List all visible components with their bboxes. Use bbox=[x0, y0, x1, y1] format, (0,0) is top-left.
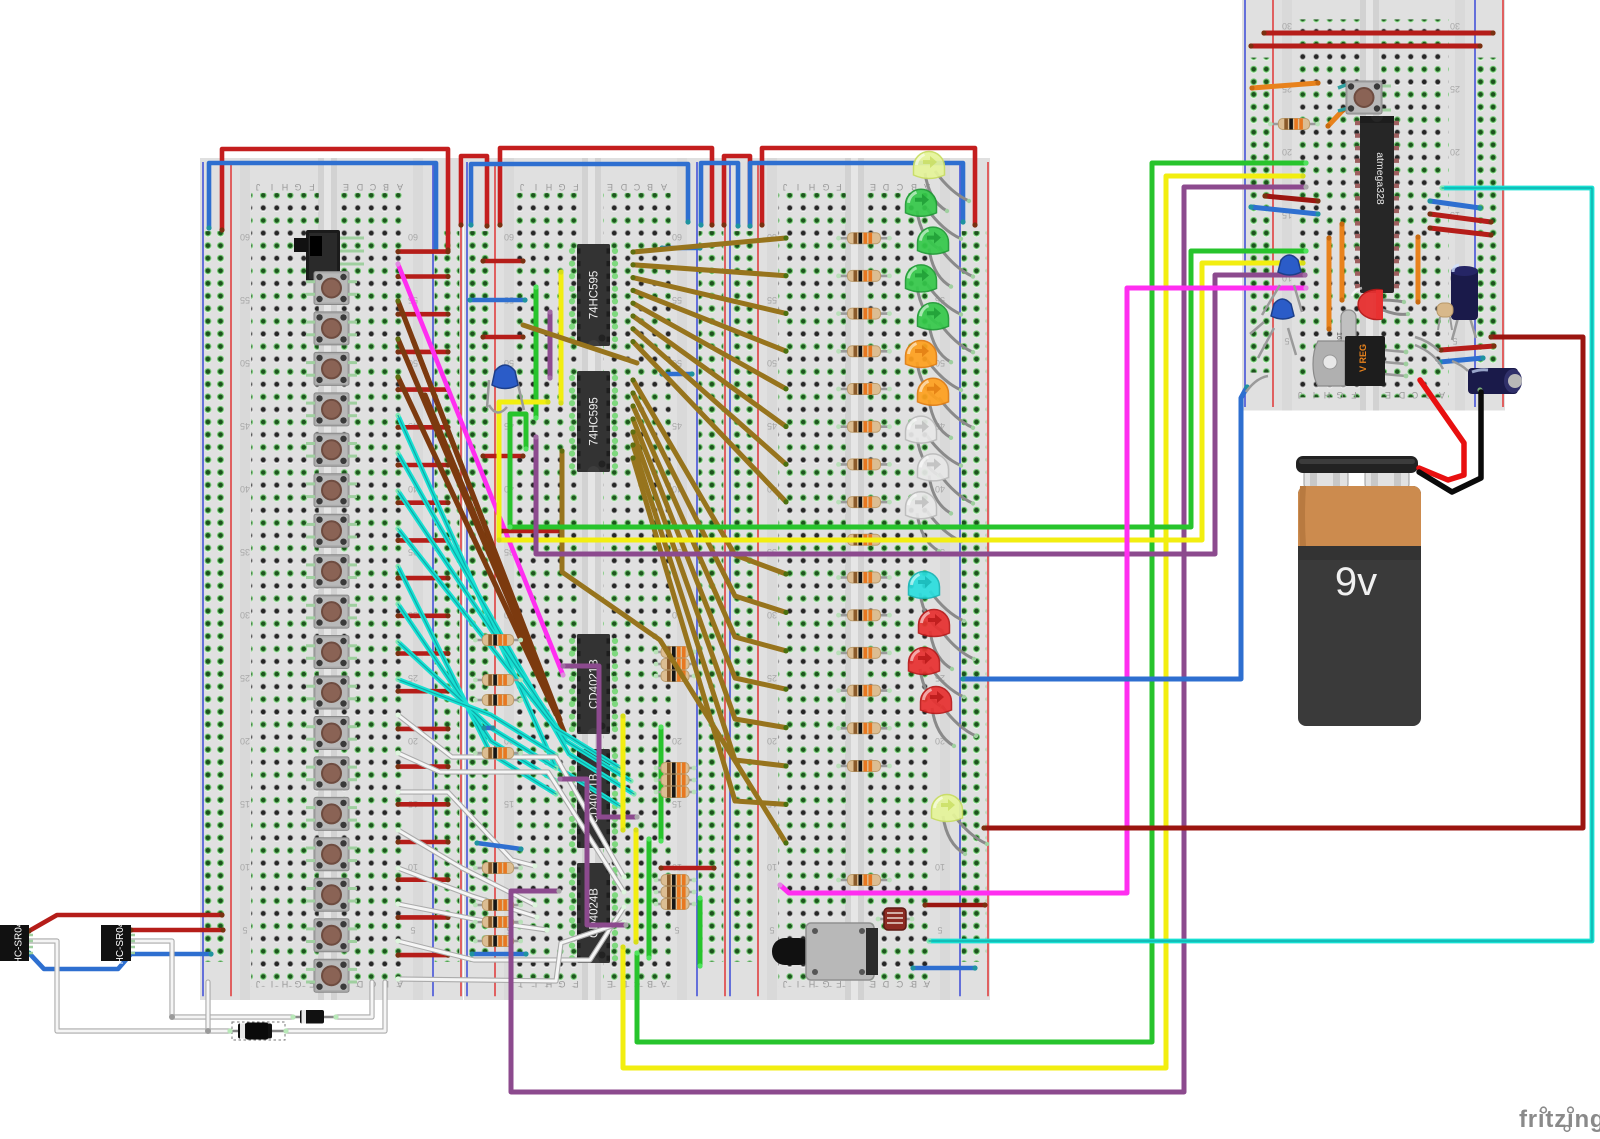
resistor R-in6 (BB2 left) bbox=[473, 900, 523, 911]
capacitor ceramic C2 (blue) on BB2 bbox=[487, 365, 524, 413]
wire white button w8 to CD4021 bbox=[398, 922, 624, 981]
resistor R-b3 (BB2 right) bbox=[654, 787, 697, 798]
wire olive fan1-3 595 to BB3 bbox=[630, 275, 788, 316]
wire red jumper BB1 row62 bbox=[395, 249, 450, 254]
svg-text:9v: 9v bbox=[1335, 560, 1377, 604]
svg-text:G: G bbox=[558, 182, 565, 192]
resistor R-led11 (BB3) bbox=[836, 610, 892, 621]
svg-text:E: E bbox=[343, 182, 349, 192]
breadboard BB4 (ATmega board) bbox=[1242, 0, 1505, 411]
svg-text:F: F bbox=[1351, 390, 1357, 400]
battery 9V bbox=[1296, 456, 1421, 726]
svg-text:fritzing: fritzing bbox=[1519, 1106, 1600, 1133]
wire green BB2 v3 bbox=[646, 836, 651, 960]
wire yellow BB2 v2 bbox=[620, 713, 625, 832]
resistor R-in4 (BB2 left) bbox=[473, 748, 523, 759]
resistor R-c3 (BB2 right) bbox=[654, 899, 697, 910]
svg-text:74HC595: 74HC595 bbox=[589, 397, 601, 446]
wire blue BB3 bottom bbox=[910, 965, 977, 970]
svg-text:15: 15 bbox=[240, 799, 250, 809]
wire red BB2 left r46 bbox=[480, 453, 525, 458]
svg-text:J: J bbox=[256, 979, 261, 989]
pushbutton SW16 bbox=[306, 878, 357, 911]
LED D2 green (BB3) bbox=[906, 189, 964, 251]
resistor R-led1 (BB3) bbox=[836, 233, 892, 244]
svg-text:25: 25 bbox=[1450, 84, 1460, 94]
pushbutton SW6 bbox=[306, 474, 357, 507]
wire olive fan1-1 595 to BB3 bbox=[630, 235, 788, 254]
svg-text:20: 20 bbox=[767, 736, 777, 746]
wire red jumper BB1 r16 bbox=[395, 877, 450, 882]
wire red jumper BB1 r3 bbox=[395, 387, 450, 392]
svg-text:C: C bbox=[896, 182, 903, 192]
pushbutton SW2 bbox=[306, 312, 357, 345]
wire cyan button c1 to CD4021 bbox=[395, 413, 622, 809]
svg-text:C: C bbox=[633, 182, 640, 192]
svg-text:D: D bbox=[356, 182, 363, 192]
svg-text:F: F bbox=[309, 182, 315, 192]
svg-text:atmega328: atmega328 bbox=[1374, 152, 1386, 205]
svg-text:J: J bbox=[783, 182, 788, 192]
LED D9 white (BB3) bbox=[917, 454, 975, 516]
svg-text:40: 40 bbox=[240, 484, 250, 494]
pushbutton SW5 bbox=[306, 433, 357, 466]
wire white button w6 to CD4021 bbox=[398, 904, 547, 930]
wire purple CD4021b bbox=[557, 776, 628, 927]
wire blue bus BB1R-to-BB2R bbox=[468, 164, 690, 228]
wire cyan button c2 to CD4021 bbox=[395, 451, 636, 797]
wire yellow long loop1 bbox=[620, 173, 1305, 1068]
svg-text:E: E bbox=[870, 182, 876, 192]
IC U3 CD4021B (BB2) bbox=[569, 634, 618, 734]
LED D12 red (BB3) bbox=[919, 609, 977, 671]
slide switch S1 bbox=[294, 230, 364, 282]
wire red BB2 left r55 bbox=[480, 334, 525, 339]
resistor R-led4 (BB3) bbox=[836, 346, 892, 357]
svg-text:H: H bbox=[1324, 390, 1331, 400]
wire gray leads BB4 bbox=[1246, 322, 1468, 392]
svg-text:F: F bbox=[573, 979, 579, 989]
svg-text:I: I bbox=[797, 979, 800, 989]
wire blue BB2 left bbox=[467, 297, 527, 302]
resistor R-c1 (BB2 right) bbox=[654, 875, 697, 886]
wire olive fan1-2 595 to BB3 bbox=[630, 262, 788, 278]
svg-text:45: 45 bbox=[240, 421, 250, 431]
capacitor tan C6 (BB4) bbox=[1437, 303, 1453, 330]
IC U4 CD4021B (BB2) bbox=[569, 749, 618, 848]
breadboard BB1 (buttons board) bbox=[200, 158, 463, 1000]
svg-text:10: 10 bbox=[240, 862, 250, 872]
resistor R-led8 (BB3) bbox=[836, 497, 892, 508]
svg-text:E: E bbox=[1385, 390, 1391, 400]
wire purple long loop1 bbox=[511, 184, 1309, 1092]
wire olive fan2-5 595 to BB3 bbox=[630, 429, 788, 730]
svg-text:H: H bbox=[809, 182, 816, 192]
LED D5 green (BB3) bbox=[917, 303, 975, 365]
svg-text:J: J bbox=[256, 182, 261, 192]
resistor R-c2 (BB2 right) bbox=[654, 887, 697, 898]
resistor R-led14 (BB3) bbox=[836, 723, 892, 734]
wire magenta long (BB3 bottom to ATmega) bbox=[777, 285, 1308, 893]
svg-text:30: 30 bbox=[240, 610, 250, 620]
wire olive fan2-4 595 to BB3 bbox=[630, 416, 788, 691]
svg-text:45: 45 bbox=[767, 421, 777, 431]
svg-text:H: H bbox=[282, 979, 289, 989]
crystal Y1 16MHz bbox=[1335, 310, 1356, 355]
breadboard BB3 (LED board) bbox=[727, 158, 990, 1000]
wire yellow BB2 elbow bbox=[496, 399, 550, 542]
resistor R-a1 (BB2 right) bbox=[654, 647, 697, 658]
wire olive fan1-8 595 to BB3 bbox=[630, 339, 788, 505]
wire white button w5 to CD4021 bbox=[398, 868, 537, 917]
wire red BB2 left r61 bbox=[480, 258, 525, 263]
resistor R-led6 (BB3) bbox=[836, 421, 892, 432]
resistor R17 (BB4) bbox=[1268, 119, 1320, 130]
svg-text:A: A bbox=[397, 182, 403, 192]
wire red jumper BB1 r2 bbox=[395, 349, 450, 354]
wire red BB2 mid r40 bbox=[498, 528, 563, 533]
pushbutton SW1 bbox=[306, 272, 357, 305]
resistor R-led10 (BB3) bbox=[836, 572, 892, 583]
svg-text:A: A bbox=[661, 979, 667, 989]
svg-text:60: 60 bbox=[672, 232, 682, 242]
wire cyan button c4 to CD4021 bbox=[395, 526, 622, 771]
voltage regulator VREG 7805 bbox=[1313, 336, 1408, 386]
LED D16 red (BB4) bbox=[1352, 288, 1410, 320]
capacitor ceramic C3 (blue, BB4) bbox=[1262, 255, 1302, 315]
LED D1 yellow-green (BB3) bbox=[914, 151, 972, 213]
wire red bus BB2L-to-BB2R bbox=[497, 148, 714, 228]
svg-text:B: B bbox=[647, 182, 653, 192]
svg-text:20: 20 bbox=[672, 736, 682, 746]
svg-text:I: I bbox=[535, 182, 538, 192]
pushbutton SW14 bbox=[306, 797, 357, 830]
wire white diode1 to BB1 bbox=[336, 982, 372, 1017]
svg-text:20: 20 bbox=[1282, 147, 1292, 157]
wire red module2 to BB1 rail bbox=[128, 927, 225, 932]
wire blue BB2 left bottom bbox=[469, 951, 528, 956]
wire red jumper BB1 r11 bbox=[395, 689, 450, 694]
wire brown button b1 to CD4021 bbox=[395, 298, 550, 692]
svg-text:15: 15 bbox=[672, 799, 682, 809]
wire white diode2 to BB1 bbox=[286, 982, 385, 1031]
wire purple CD4021a bbox=[560, 663, 639, 819]
capacitor ceramic C4 (blue, BB4) bbox=[1258, 299, 1296, 358]
svg-text:55: 55 bbox=[672, 295, 682, 305]
svg-text:C: C bbox=[896, 979, 903, 989]
LED D11 cyan (BB3) bbox=[909, 572, 967, 634]
resistor R-led12 (BB3) bbox=[836, 647, 892, 658]
svg-text:30: 30 bbox=[1450, 21, 1460, 31]
pushbutton SW4 bbox=[306, 393, 357, 426]
capacitor electrolytic C5 (BB4) bbox=[1451, 265, 1478, 340]
wire dark-red long (ATmega to BB3) bbox=[981, 334, 1583, 830]
svg-text:G: G bbox=[294, 979, 301, 989]
wire blue BB4 right4 bbox=[1437, 355, 1485, 364]
svg-text:D: D bbox=[882, 979, 889, 989]
resistor R-in1 (BB2 left) bbox=[473, 635, 523, 646]
wire blue BB2 left diag bbox=[474, 840, 523, 851]
svg-text:30: 30 bbox=[1282, 21, 1292, 31]
wire olive fan2-3 595 to BB3 bbox=[630, 403, 788, 653]
wire red bus BB1R-to-BB2L bbox=[458, 156, 489, 229]
svg-text:20: 20 bbox=[1450, 147, 1460, 157]
IC U1 74HC595 (BB2) bbox=[569, 244, 618, 346]
wire white button w3 to CD4021 bbox=[398, 792, 535, 866]
wire cyan button c6 to CD4021 bbox=[395, 601, 558, 783]
wire white module1 loop bbox=[29, 941, 230, 1031]
wire orange BB4 v2 bbox=[1339, 221, 1344, 302]
wire olive fan2-6 595 to BB3 bbox=[630, 442, 788, 768]
wire brown button b3 to CD4021 bbox=[395, 374, 558, 716]
wire olive fan2-1 595 to BB3 bbox=[630, 377, 788, 576]
pushbutton SW11 bbox=[306, 676, 357, 709]
svg-text:60: 60 bbox=[504, 232, 514, 242]
wire yellow long mid bbox=[496, 260, 1305, 542]
resistor R-led9 (BB3) bbox=[836, 534, 892, 545]
wire blue BB4 left bbox=[1248, 204, 1320, 216]
wire red bus BB1L-to-BB1R bbox=[219, 149, 450, 253]
wire cyan long (ATmega to BB3 bottom) bbox=[926, 185, 1592, 943]
pushbutton SW7 bbox=[306, 514, 357, 547]
svg-text:C: C bbox=[1411, 390, 1418, 400]
svg-text:B: B bbox=[647, 979, 653, 989]
wire red jumper BB1 r12 bbox=[395, 726, 450, 731]
resistor R-in3 (BB2 left) bbox=[473, 695, 523, 706]
LED D6 orange (BB3) bbox=[906, 341, 964, 403]
wire red bus BB3L-to-BB3R bbox=[759, 148, 977, 228]
wire red jumper BB1 r14 bbox=[395, 802, 450, 807]
resistor R-led5 (BB3) bbox=[836, 384, 892, 395]
wire orange BB4 v3 bbox=[1415, 234, 1420, 304]
wire red jumper BB1 r1 bbox=[395, 312, 450, 317]
svg-text:74HC595: 74HC595 bbox=[589, 271, 601, 320]
wire red jumper BB1 r0 bbox=[395, 274, 450, 279]
pushbutton SW19 (reset, BB4) bbox=[1338, 81, 1391, 114]
wire red jumper BB1 r5 bbox=[395, 462, 450, 467]
pushbutton SW13 bbox=[306, 757, 357, 790]
wire blue bus BB2R-to-BB3L bbox=[698, 163, 740, 229]
svg-text:10: 10 bbox=[767, 862, 777, 872]
svg-text:I: I bbox=[271, 979, 274, 989]
wire red jumper BB1 r8 bbox=[395, 576, 450, 581]
svg-text:15: 15 bbox=[504, 799, 514, 809]
LED D8 white (BB3) bbox=[906, 416, 964, 478]
wire red BB4 right1 bbox=[1427, 211, 1493, 224]
wire white BB1 rail drop bbox=[205, 982, 210, 1031]
wire red jumper BB1 r17 bbox=[395, 915, 450, 920]
resistor R-in5 (BB2 left) bbox=[473, 863, 523, 874]
wire red battery lead bbox=[1419, 380, 1464, 480]
svg-text:HC-SR04: HC-SR04 bbox=[115, 921, 126, 964]
svg-text:C: C bbox=[369, 182, 376, 192]
wire green BB2 v1 bbox=[533, 284, 538, 420]
wire red jumper BB1 r7 bbox=[395, 538, 450, 543]
wire red jumper BB1 r9 bbox=[395, 613, 450, 618]
wire green BB2 stub bbox=[697, 895, 702, 968]
svg-text:55: 55 bbox=[240, 295, 250, 305]
wire brown button b2 to CD4021 bbox=[395, 336, 554, 704]
resistor R-b1 (BB2 right) bbox=[654, 763, 697, 774]
svg-text:G: G bbox=[294, 182, 301, 192]
svg-text:D: D bbox=[356, 979, 363, 989]
wire olive fan2-2 595 to BB3 bbox=[630, 390, 788, 615]
svg-text:B: B bbox=[383, 182, 389, 192]
svg-text:J: J bbox=[783, 979, 788, 989]
wire yellow BB2 v3 bbox=[633, 827, 638, 944]
wire olive fan2-7 595 to BB3 bbox=[630, 455, 788, 807]
pushbutton SW8 bbox=[306, 555, 357, 588]
wire white module2 loop bbox=[131, 941, 293, 1017]
wire cyan button c3 to CD4021 bbox=[395, 488, 633, 783]
svg-text:5: 5 bbox=[242, 925, 247, 935]
IC U2 74HC595 (BB2) bbox=[569, 371, 618, 472]
resistor R-in7 (BB2 left) bbox=[473, 917, 523, 928]
breadboard BB2 (shift-register board) bbox=[464, 158, 727, 1000]
svg-text:5: 5 bbox=[769, 925, 774, 935]
wire red jumper BB1 r10 bbox=[395, 651, 450, 656]
wire orange BB4 left bbox=[1249, 80, 1320, 90]
svg-text:HC-SR04: HC-SR04 bbox=[14, 921, 25, 964]
wire red BB4 right2 bbox=[1427, 225, 1493, 237]
pushbutton SW17 bbox=[306, 919, 357, 952]
wire magenta button-row to BB2 bbox=[395, 261, 565, 677]
svg-text:25: 25 bbox=[767, 673, 777, 683]
wire olive fan1-5 595 to BB3 bbox=[630, 301, 788, 392]
svg-text:B: B bbox=[911, 979, 917, 989]
wire yellow BB2 v1 bbox=[558, 269, 563, 405]
wire blue long (ATmega to BB3) bbox=[960, 384, 1249, 681]
svg-text:20: 20 bbox=[240, 736, 250, 746]
wire white button w1 to CD4021 bbox=[398, 715, 624, 877]
diode D2 (selected) bbox=[227, 1022, 288, 1040]
wire olive fan2-8 bbox=[559, 448, 788, 845]
wire blue BB2 stub bbox=[481, 725, 495, 730]
resistor R-in2 (BB2 left) bbox=[473, 675, 523, 686]
resistor R-led13 (BB3) bbox=[836, 685, 892, 696]
wire orange BB4 v1 bbox=[1326, 235, 1331, 331]
pushbutton SW9 bbox=[306, 595, 357, 628]
svg-text:50: 50 bbox=[240, 358, 250, 368]
svg-text:55: 55 bbox=[767, 295, 777, 305]
svg-text:G: G bbox=[1336, 390, 1343, 400]
svg-text:35: 35 bbox=[240, 547, 250, 557]
pushbutton SW10 bbox=[306, 636, 357, 669]
wire brown button b4 to CD4021 bbox=[413, 340, 560, 720]
wire black battery lead bbox=[1419, 392, 1481, 492]
resistor R-b2 (BB2 right) bbox=[654, 775, 697, 786]
svg-text:D: D bbox=[1398, 390, 1405, 400]
capacitor electrolytic C7 (BB4, horizontal) bbox=[1468, 368, 1522, 400]
svg-text:H: H bbox=[546, 182, 553, 192]
wire blue BB2 right r52 bbox=[659, 371, 694, 376]
svg-text:I: I bbox=[271, 182, 274, 192]
svg-text:J: J bbox=[520, 182, 525, 192]
svg-text:F: F bbox=[836, 182, 842, 192]
svg-text:60: 60 bbox=[408, 232, 418, 242]
photoresistor LDR1 bbox=[876, 908, 915, 930]
wire olive fan1-7 595 to BB3 bbox=[630, 326, 788, 467]
wire red module1 to BB1 rail bbox=[26, 912, 224, 933]
diode D1 bbox=[290, 1010, 338, 1024]
svg-text:J: J bbox=[1298, 390, 1303, 400]
wire brown button b5 to CD4021 bbox=[425, 395, 564, 732]
IC U6 ATmega328 DIP-28 bbox=[1355, 116, 1399, 293]
svg-text:5: 5 bbox=[937, 925, 942, 935]
svg-text:I: I bbox=[797, 182, 800, 192]
svg-text:E: E bbox=[607, 979, 613, 989]
svg-text:A: A bbox=[1439, 390, 1445, 400]
svg-text:E: E bbox=[607, 182, 613, 192]
LED D3 green (BB3) bbox=[917, 227, 975, 289]
wire red jumper BB1 r4 bbox=[395, 425, 450, 430]
svg-text:60: 60 bbox=[240, 232, 250, 242]
svg-text:45: 45 bbox=[672, 421, 682, 431]
svg-text:5: 5 bbox=[674, 925, 679, 935]
wire cyan button c5 to CD4021 bbox=[395, 564, 558, 797]
resistor R-in8 (BB2 left) bbox=[473, 936, 523, 947]
LED D14 red (BB3) bbox=[921, 687, 979, 749]
wire dark-red BB4 left bbox=[1262, 193, 1320, 203]
svg-text:20: 20 bbox=[408, 736, 418, 746]
svg-text:I: I bbox=[1313, 390, 1316, 400]
pushbutton SW12 bbox=[306, 717, 357, 750]
wire green long loop1 (BB2 bottom to ATmega) bbox=[634, 160, 1308, 1042]
wire purple BB2 v1 bbox=[547, 309, 552, 380]
sonar module HC-SR04 #1 bbox=[0, 921, 33, 964]
wire red jumper BB1 r15 bbox=[395, 839, 450, 844]
wire blue bus BB1L-to-BB1R bbox=[206, 163, 438, 254]
svg-text:G: G bbox=[822, 182, 829, 192]
wire dark-red BB3 bottom bbox=[922, 902, 987, 907]
svg-text:D: D bbox=[882, 182, 889, 192]
wire red bus BB2R-to-BB3L bbox=[721, 156, 752, 229]
svg-text:E: E bbox=[870, 979, 876, 989]
wire blue bus BB3L-to-BB3R bbox=[747, 163, 965, 229]
wire red jumper BB1 r13 bbox=[395, 764, 450, 769]
resistor R-led2 (BB3) bbox=[836, 270, 892, 281]
svg-text:G: G bbox=[558, 979, 565, 989]
LED D7 orange (BB3) bbox=[917, 378, 975, 440]
wire red BB4 right3 bbox=[1438, 343, 1496, 352]
svg-text:5: 5 bbox=[1284, 336, 1289, 346]
svg-text:F: F bbox=[573, 182, 579, 192]
pushbutton SW15 bbox=[306, 838, 357, 871]
pushbutton SW18 bbox=[306, 959, 357, 992]
wire red BB4 top bus2 bbox=[1248, 43, 1482, 48]
resistor R-a3 (BB2 right) bbox=[654, 671, 697, 682]
wire cyan button c7 to CD4021 bbox=[395, 639, 558, 771]
wire blue BB2 right r62 bbox=[659, 245, 702, 250]
pushbutton SW3 bbox=[306, 352, 357, 385]
wire white button w2 to CD4021 bbox=[398, 753, 624, 892]
svg-text:40: 40 bbox=[935, 484, 945, 494]
LED D15 yellow-green (BB3) bbox=[932, 795, 990, 857]
sonar module HC-SR04 #2 bbox=[101, 921, 135, 964]
svg-text:D: D bbox=[620, 182, 627, 192]
resistor R-led16 (BB3) bbox=[836, 875, 892, 886]
LED D4 green (BB3) bbox=[906, 265, 964, 327]
wire red BB2 right A-rail bbox=[658, 865, 716, 870]
wire purple long mid bbox=[533, 272, 1307, 554]
wire green long mid (BB2 to ATmega) bbox=[507, 248, 1308, 529]
wire red BB4 top bus1 bbox=[1261, 30, 1495, 35]
wire cyan button c8 to CD4021 bbox=[395, 677, 558, 758]
wire olive fan1-4 595 to BB3 bbox=[630, 288, 788, 354]
wire red jumper BB1 r18 bbox=[395, 953, 450, 958]
svg-text:A: A bbox=[661, 182, 667, 192]
wire olive fan1-6 595 to BB3 bbox=[630, 313, 788, 429]
